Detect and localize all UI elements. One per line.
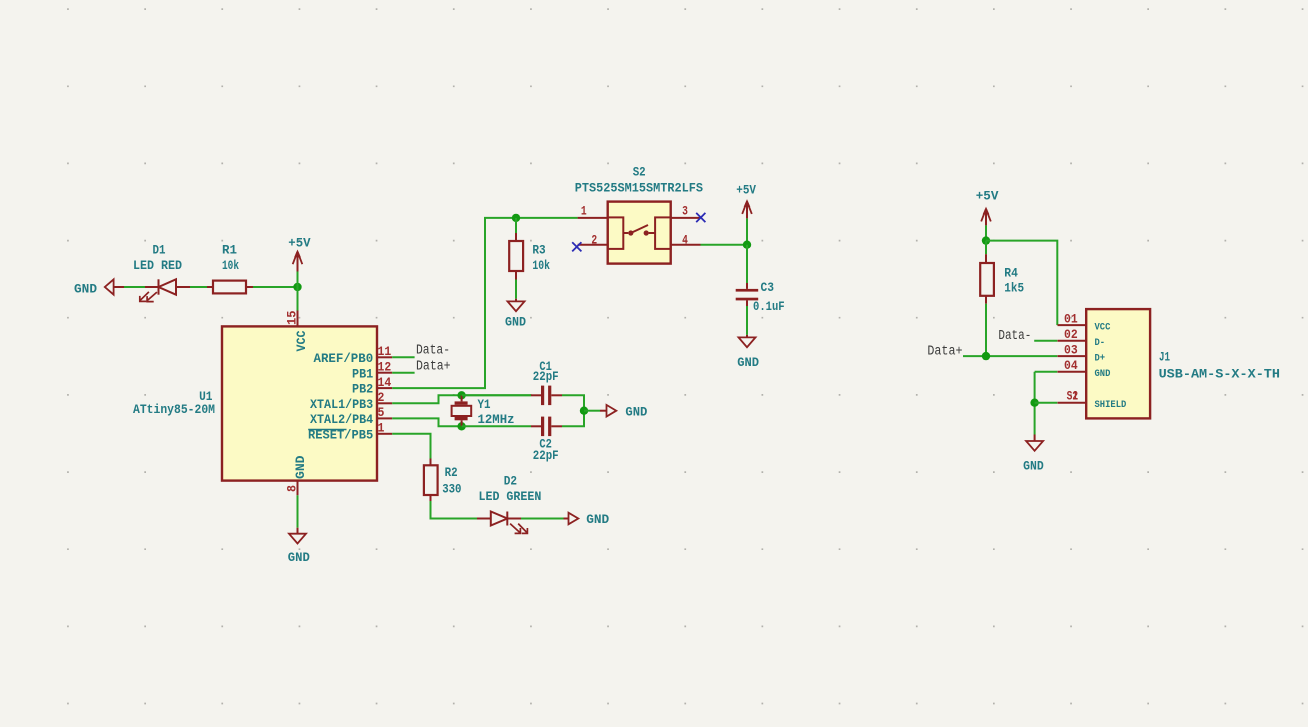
svg-text:3: 3 xyxy=(682,203,688,218)
svg-text:5: 5 xyxy=(378,405,385,420)
svg-text:2: 2 xyxy=(378,390,385,405)
svg-text:GND: GND xyxy=(737,355,759,370)
svg-text:PB2: PB2 xyxy=(352,382,373,397)
svg-text:SHIELD: SHIELD xyxy=(1095,399,1127,411)
svg-text:Data-: Data- xyxy=(416,343,450,358)
svg-text:J1: J1 xyxy=(1159,350,1170,365)
svg-text:GND: GND xyxy=(625,404,647,419)
svg-text:04: 04 xyxy=(1064,358,1078,373)
svg-text:10k: 10k xyxy=(222,258,239,273)
svg-text:LED GREEN: LED GREEN xyxy=(479,489,542,504)
svg-text:AREF/PB0: AREF/PB0 xyxy=(314,351,374,366)
svg-text:GND: GND xyxy=(505,314,526,329)
svg-text:Data-: Data- xyxy=(998,329,1031,344)
svg-text:D+: D+ xyxy=(1095,352,1106,364)
svg-text:22pF: 22pF xyxy=(533,448,559,463)
svg-text:D2: D2 xyxy=(504,473,517,488)
svg-text:XTAL2/PB4: XTAL2/PB4 xyxy=(310,412,373,427)
svg-text:22pF: 22pF xyxy=(533,369,559,384)
svg-text:1k5: 1k5 xyxy=(1004,281,1024,296)
svg-text:D-: D- xyxy=(1095,337,1106,349)
svg-text:R1: R1 xyxy=(222,242,237,257)
svg-text:4: 4 xyxy=(682,232,688,247)
svg-text:R4: R4 xyxy=(1004,265,1018,280)
svg-text:PTS525SM15SMTR2LFS: PTS525SM15SMTR2LFS xyxy=(575,181,703,196)
svg-text:LED RED: LED RED xyxy=(133,258,182,273)
svg-text:10k: 10k xyxy=(532,258,550,273)
svg-text:GND: GND xyxy=(288,550,310,565)
svg-text:15: 15 xyxy=(285,310,300,325)
svg-text:PB1: PB1 xyxy=(352,366,373,381)
svg-text:01: 01 xyxy=(1064,311,1078,326)
svg-text:1: 1 xyxy=(1072,389,1078,404)
svg-text:VCC: VCC xyxy=(1095,321,1111,333)
svg-text:Data+: Data+ xyxy=(927,345,962,360)
svg-text:R3: R3 xyxy=(532,243,545,258)
svg-text:VCC: VCC xyxy=(294,330,309,351)
svg-text:+5V: +5V xyxy=(736,183,756,198)
svg-text:Y1: Y1 xyxy=(478,397,491,412)
svg-text:Data+: Data+ xyxy=(416,359,451,374)
svg-text:330: 330 xyxy=(442,481,461,496)
svg-text:XTAL1/PB3: XTAL1/PB3 xyxy=(310,397,373,412)
svg-text:03: 03 xyxy=(1064,342,1078,357)
svg-text:S2: S2 xyxy=(633,164,646,179)
svg-text:GND: GND xyxy=(293,455,308,479)
svg-text:1: 1 xyxy=(581,203,587,218)
svg-text:+5V: +5V xyxy=(976,189,999,204)
svg-text:R2: R2 xyxy=(445,465,458,480)
svg-text:8: 8 xyxy=(285,485,300,492)
svg-text:GND: GND xyxy=(1095,368,1111,380)
svg-text:12: 12 xyxy=(378,360,392,375)
svg-text:12MHz: 12MHz xyxy=(478,412,515,427)
svg-text:D1: D1 xyxy=(153,242,166,257)
svg-text:2: 2 xyxy=(591,232,597,247)
svg-text:14: 14 xyxy=(378,375,392,390)
svg-text:1: 1 xyxy=(378,421,385,436)
svg-text:+5V: +5V xyxy=(288,235,310,250)
svg-text:11: 11 xyxy=(378,344,392,359)
svg-text:GND: GND xyxy=(586,512,609,527)
svg-text:C3: C3 xyxy=(761,280,775,295)
svg-text:02: 02 xyxy=(1064,327,1078,342)
svg-text:GND: GND xyxy=(74,282,97,297)
svg-text:ATtiny85-20M: ATtiny85-20M xyxy=(133,402,215,417)
svg-text:0.1uF: 0.1uF xyxy=(753,299,785,314)
svg-text:USB-AM-S-X-X-TH: USB-AM-S-X-X-TH xyxy=(1159,366,1280,381)
svg-text:GND: GND xyxy=(1023,458,1044,473)
